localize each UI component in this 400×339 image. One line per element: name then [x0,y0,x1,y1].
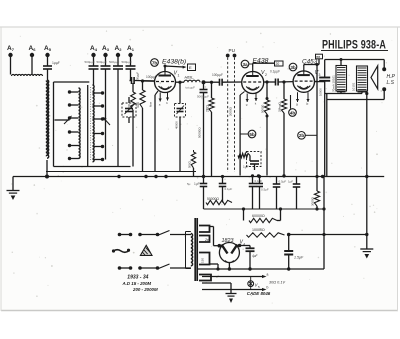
capacitor C11 [222,177,224,184]
svg-text:100μμF: 100μμF [212,73,223,77]
svg-text:b: b [307,102,309,106]
pin V3 p1 [297,92,299,102]
transformer secondary hook LT2 [199,275,211,281]
svg-text:50μμF: 50μμF [136,72,140,80]
capacitor C-A2 [117,57,119,66]
svg-text:40000: 40000 [175,121,179,129]
svg-text:A.D 15 - 200M: A.D 15 - 200M [122,281,152,286]
transformer T-out secondary [357,66,368,91]
circled terminal 2b [298,132,306,140]
tone box [316,54,323,59]
svg-text:50000Ω: 50000Ω [207,197,219,201]
capacitor C-A3 [105,57,107,66]
wire V3 top to tone box [303,65,305,67]
wire grid node drop [132,83,134,92]
svg-text:20: 20 [276,62,280,66]
transformer secondary hook HT2 [199,236,210,243]
svg-text:150: 150 [201,258,205,263]
tap stub L3-2 [70,104,79,106]
wire mains stub a [118,233,122,237]
wire heater row b [202,289,263,291]
capacitor C-grid series [130,80,132,82]
svg-text:2: 2 [265,73,267,77]
switch S3b [138,266,142,270]
svg-text:CADE 8046: CADE 8046 [247,291,271,296]
wire V2 top link [252,63,254,66]
svg-text:2000Ω: 2000Ω [229,106,233,116]
bus B+ rail [204,208,325,210]
svg-text:A7: A7 [7,45,15,52]
svg-text:10000Ω: 10000Ω [252,228,265,232]
tap stub L3-3 [70,117,79,119]
svg-text:500μμF: 500μμF [122,60,132,64]
svg-text:500Ω: 500Ω [188,161,192,168]
trimmer capacitor T2 dashed box [178,81,181,84]
svg-text:A5: A5 [44,45,52,52]
svg-text:HEIL.: HEIL. [185,75,195,80]
capacitor C-A4 [93,57,95,66]
resistor R-het [193,150,195,152]
svg-text:a: a [267,273,269,277]
wire A6 lead [31,57,33,74]
svg-text:A2: A2 [115,45,123,52]
capacitor C12 [252,177,254,184]
ground G2 right [366,235,368,250]
resistor R2 2M [210,81,213,84]
tap stub L4-5 [93,146,103,148]
svg-text:1.5μF: 1.5μF [294,256,304,260]
wire A7 lead [10,57,12,75]
svg-text:50000Ω: 50000Ω [198,127,202,138]
svg-text:L.S: L.S [387,80,395,86]
wire A2 lead [117,69,119,167]
wire V1 cathode drop [155,91,158,95]
tap stub L4-1 [93,92,103,94]
resistor R7 50000 [206,200,232,204]
svg-text:4Ω0: 4Ω0 [136,102,140,108]
pin V1 p2 [167,93,169,101]
svg-text:1: 1 [178,74,180,78]
svg-text:1μF: 1μF [288,180,293,184]
wire HT vertical pair [324,81,326,177]
coil L2 aerial tuning [47,80,49,158]
wire PU dashed b [234,58,236,173]
coil L5 plate choke [176,81,185,83]
svg-text:2b: 2b [299,133,305,138]
svg-text:0.1μμF: 0.1μμF [270,70,280,74]
svg-text:a: a [296,103,298,107]
tube V2 E438 [242,72,264,94]
pin V2 p2 [255,94,257,102]
wire sec bottom drop [366,91,368,177]
svg-text:500μμF: 500μμF [109,60,119,64]
tap stub L4-4 [93,133,103,135]
svg-text:7b: 7b [152,60,158,65]
svg-text:1μF: 1μF [194,182,200,186]
circled terminal 7b [151,59,159,67]
svg-text:2MegΩ: 2MegΩ [278,101,282,112]
svg-text:A3: A3 [102,45,110,52]
svg-text:A1: A1 [127,45,135,52]
resistor R4 [282,80,285,83]
coil L3 wave-band [79,88,81,158]
wire V3 plate to rail [315,81,325,83]
ground G1 left [12,177,14,191]
svg-text:A4: A4 [90,45,98,52]
het oscillator box [188,64,196,71]
speaker terminal top [382,67,386,71]
wire speaker return [327,99,384,101]
wire V2 cathode drop [240,92,244,96]
svg-text:1933 - 34: 1933 - 34 [127,275,148,281]
trimmer dashed box 2 [247,152,262,167]
svg-text:1823: 1823 [222,238,234,244]
wire A3 lead [105,69,107,93]
tap stub L3-6 [70,158,79,160]
svg-text:0.1μF: 0.1μF [255,179,263,183]
wire mains stub b [118,266,122,270]
capacitor C-A1 [130,57,132,66]
tap stub L3-5 [70,145,79,147]
svg-text:3b: 3b [290,65,296,70]
coil box frame [53,82,55,167]
svg-text:0.1μF: 0.1μF [225,187,233,191]
svg-text:1μF: 1μF [243,165,249,169]
wire plate feed x317 [316,65,318,177]
svg-text:2MΩ: 2MΩ [206,105,210,112]
wire A1 lead [130,69,132,81]
coil L1 aerial series [12,74,43,76]
svg-text:3a: 3a [242,62,248,67]
transformer secondary hook HT1 [199,226,210,233]
svg-text:60000Ω: 60000Ω [252,214,265,218]
svg-text:500μμF: 500μμF [85,60,95,64]
wire heater row mid [202,282,231,284]
switch S3a [138,233,142,237]
fuse F1 [114,250,129,253]
wire PSU box right [323,177,325,270]
tap stub L3-1 [70,91,79,93]
capacitor C9 cathode [250,160,259,162]
capacitor C16 4uF [246,247,255,249]
svg-text:PU: PU [229,48,235,53]
svg-text:50000: 50000 [261,104,265,113]
warning triangle [140,245,152,255]
bus ground upper [46,171,196,173]
svg-text:2x: 2x [204,238,209,242]
svg-text:3000Ω: 3000Ω [311,196,315,206]
wire to het box [165,66,184,67]
speaker terminal bottom [382,87,386,91]
pin V2 p1 [246,94,248,103]
svg-text:0.5μF: 0.5μF [261,188,269,192]
tap stub L4-3 [93,118,103,120]
svg-text:4b: 4b [290,110,296,115]
svg-text:E438(b): E438(b) [162,59,186,66]
lamp V5 [250,277,252,290]
speaker LS [371,66,378,89]
capacitor C6 coupling [204,81,220,83]
wire V4 anode left [218,244,222,248]
wire V1 top cap [164,66,166,72]
svg-text:BB: BB [316,55,320,59]
wire A3 tap column [105,93,107,160]
circled terminal 3b [289,63,297,71]
capacitor C14 [296,177,298,185]
svg-text:b: b [267,286,269,290]
resistor R5 cathode [235,155,239,157]
svg-text:0.5μF: 0.5μF [279,180,287,184]
tap stub L4-6 [93,159,103,161]
circled terminal 3a [241,60,249,68]
capacitor C7 coupling [264,81,276,83]
wire output top rail [323,57,325,60]
wire to primary top [190,234,192,235]
capacitor C13 [276,177,278,185]
svg-text:5b: 5b [249,132,255,137]
block box 200 [275,61,284,66]
svg-text:PHILIPS 938-A: PHILIPS 938-A [322,40,386,52]
capacitor C12b [259,177,261,184]
scan speckle [130,71,131,72]
wire V4 cathode [228,263,230,270]
svg-text:E: E [189,65,192,70]
svg-text:A6: A6 [29,45,37,52]
wire PU dashed a [227,58,229,173]
tube V4 1823 [219,243,239,263]
wire LT1 link [210,263,219,265]
svg-text:200 - 2000M: 200 - 2000M [132,287,158,292]
tap stub L4-2 [93,105,103,107]
wire PSU bottom [197,268,324,270]
svg-text:10000: 10000 [319,88,323,96]
circled terminal 4b [290,95,292,109]
svg-text:70mA 10101: 70mA 10101 [332,75,336,92]
wire A4 lead [93,69,95,85]
svg-text:5μ: 5μ [187,182,191,186]
transformer T-mains core [194,218,196,281]
pin V1 p1 [159,93,161,102]
svg-text:5000μμF: 5000μμF [197,95,209,99]
transformer T-mains primary [191,234,193,266]
resistor R3 [265,80,268,83]
svg-text:3: 3 [319,73,321,77]
resistor R1 grid leak [142,81,144,90]
coil L4 wave-band [93,85,95,162]
wire heater row a [202,276,263,278]
wire field drop [366,177,368,235]
capacitor C8 on feed [324,60,326,78]
tap stub L3-4 [70,131,79,133]
wire transformer bottoms [340,91,342,94]
pin V3 p2 [307,92,309,102]
capacitor C5 to ground [202,80,206,84]
wire V4 anode right [238,244,242,248]
wire HT link [287,233,291,237]
resistor R9 10000 [243,221,245,236]
wire V1 grid entry [143,80,155,82]
svg-text:tot μμF: tot μμF [186,86,196,90]
ground G3 psu [226,293,237,295]
bus ground main [13,176,384,178]
transformer secondary hook LT1 [199,253,210,265]
trimmer capacitor T1 dashed box [122,103,136,117]
svg-text:30Ω 0.1V: 30Ω 0.1V [269,281,285,285]
wire coil-bank inner [87,85,89,167]
junction dots on bus [117,175,120,178]
switch wiper arrow S2 [105,120,110,126]
tube V1 E438(b) [155,72,176,93]
resistor R8 60000 [243,209,245,221]
tube V3 C453 [293,71,314,92]
svg-text:1μμF: 1μμF [52,61,60,65]
capacitor C10 [203,177,205,184]
transformer T-out primary [336,66,347,92]
capacitor C15 electrolytic [288,235,290,251]
switch wiper arrow S1 [64,118,70,124]
resistor R6 3000 [316,177,318,192]
capacitor C-A5 [47,57,49,66]
circled terminal 5b [240,133,248,135]
svg-text:10101: 10101 [352,82,356,91]
svg-text:500μμF: 500μμF [97,60,107,64]
